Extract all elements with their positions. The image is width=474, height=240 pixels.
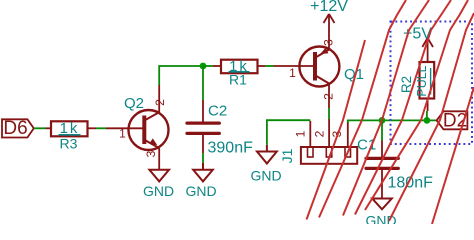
connector J1 pin 3 [347, 122, 349, 148]
wire R1 to Q1 base [265, 65, 274, 67]
hatch stroke 4 [355, 0, 451, 215]
svg-text:2: 2 [322, 93, 336, 100]
capacitor C2 [187, 123, 219, 133]
svg-text:D6: D6 [3, 118, 27, 139]
svg-text:3: 3 [322, 39, 336, 46]
svg-text:2: 2 [153, 99, 167, 106]
resistor R2 pins [427, 38, 429, 63]
svg-text:1: 1 [289, 66, 296, 80]
wire R3 to Q2 base [96, 127, 106, 129]
ground symbol left of J1 [257, 145, 277, 164]
junction node C1 top [379, 117, 386, 124]
resistor R3 pins [46, 127, 52, 129]
wire junction C2 top [202, 66, 204, 100]
hatch stroke 5 [365, 0, 468, 210]
svg-text:Q2: Q2 [124, 95, 144, 112]
J1 socket 1 [308, 147, 314, 157]
wire J1 pin3 to right rail [348, 120, 437, 123]
wire Q1 collector down [328, 108, 330, 119]
svg-text:+12V: +12V [310, 0, 348, 15]
transistor Q2 base pin [106, 127, 144, 129]
J1 socket 3 [345, 147, 351, 157]
resistor R1 [221, 60, 258, 73]
Q2 emitter arrow [149, 138, 157, 145]
transistor Q1 base pin [274, 65, 316, 67]
transistor Q2 [129, 85, 169, 170]
resistor R3 [51, 121, 88, 136]
resistor R2 (vertical) [420, 62, 435, 99]
wire D6 to R3 [34, 127, 46, 129]
global label D2 [437, 111, 468, 129]
wire C2 to GND [202, 153, 204, 163]
selection box (dashed blue) [391, 22, 473, 145]
ground symbol under Q2 [149, 170, 169, 182]
svg-text:GND: GND [143, 183, 174, 199]
ground symbol under C1 [372, 199, 392, 210]
power +5V [422, 38, 433, 47]
wire junction to R1 [203, 65, 213, 67]
svg-text:GND: GND [185, 183, 216, 199]
svg-text:390nF: 390nF [208, 140, 254, 157]
svg-text:C2: C2 [208, 103, 227, 120]
hatch stroke 3 [343, 0, 429, 216]
svg-text:J1: J1 [279, 148, 295, 163]
hatch stroke 6 [389, 13, 474, 221]
svg-text:PULL: PULL [415, 65, 429, 96]
svg-text:R3: R3 [60, 136, 78, 152]
capacitor C2 pins [202, 100, 204, 122]
svg-text:GND: GND [250, 168, 281, 184]
junction node R2 bottom [424, 117, 431, 124]
wire junction to C1 [381, 120, 383, 140]
svg-text:3: 3 [144, 150, 158, 157]
svg-text:1: 1 [119, 127, 126, 141]
capacitor C1 pins [381, 141, 383, 158]
connector J1 body [301, 147, 357, 164]
global label D6 [2, 119, 34, 137]
ground symbol under C2 [193, 163, 213, 181]
wire R2 to junction [426, 111, 428, 120]
connector J1 pin 2 [328, 119, 330, 147]
junction node collector/C2/R1 [200, 63, 207, 70]
svg-text:1: 1 [294, 130, 308, 137]
capacitor C1 [366, 158, 398, 168]
hatch stroke 2 [319, 0, 406, 218]
hatch stroke 7 [432, 87, 474, 224]
hatch stroke 1 [307, 40, 366, 220]
wire J1 pin1 to GND [267, 120, 310, 145]
Q1 emitter arrow (PNP, points to bar) [320, 48, 328, 54]
power +12V [324, 14, 335, 23]
J1 socket 2 [326, 147, 332, 157]
connector J1 pin 1 [309, 121, 311, 147]
transistor Q1 [299, 14, 339, 108]
svg-text:2: 2 [312, 130, 326, 137]
resistor R1 pins [213, 65, 221, 67]
wire Q2 collector up and right [159, 66, 203, 85]
svg-text:R1: R1 [229, 72, 247, 88]
